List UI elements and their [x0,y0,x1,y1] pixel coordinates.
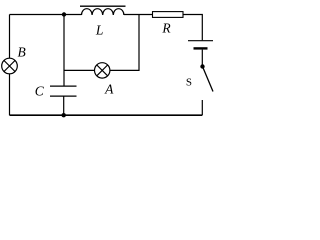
junction dot bottom (node between capacitor and bottom wire) [62,113,66,117]
wire A-branch right and up to top wire [110,15,139,71]
capacitor C top plate [50,85,77,87]
junction dot top (node between B, L and A branches) [62,12,66,16]
lamp A circle with cross [95,63,110,78]
wire inner-left vertical (top junction through A-branch to capacitor) [63,15,65,87]
svg-text:C: C [35,83,45,98]
svg-text:L: L [95,23,104,38]
svg-text:S: S [186,77,192,89]
wire capacitor to bottom junction [63,96,65,115]
svg-text:R: R [161,21,171,36]
wire left upper (corner to lamp B) [9,15,11,116]
wire A-branch left [64,69,95,71]
resistor R box [153,12,184,18]
svg-text:A: A [104,81,114,96]
battery short thick plate [194,47,208,49]
inductor L coil [82,9,124,15]
wire battery to switch pivot [201,50,203,65]
svg-text:B: B [17,45,25,60]
wire top (left segment to junction and to inductor) [10,14,82,16]
wire coil to resistor [124,14,153,16]
inductor L core bar [80,5,126,7]
lamp B circle with cross [2,58,18,74]
switch lower terminal wire [201,100,203,115]
battery long plate [188,40,213,42]
switch S blade [203,67,214,92]
switch pivot dot [200,64,204,68]
wire bottom [10,114,203,116]
capacitor C bottom plate [50,95,77,97]
wire resistor to top-right corner and down to battery [183,15,202,41]
